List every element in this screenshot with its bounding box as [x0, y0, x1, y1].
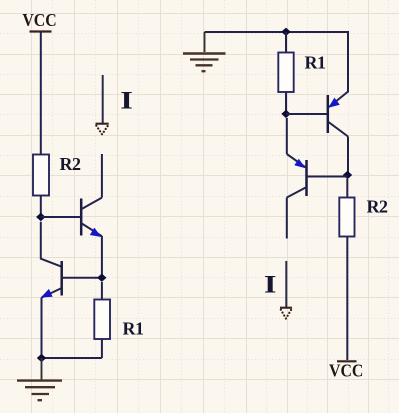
wire Q3 collector to node F	[347, 137, 349, 176]
wire Q2 base to node B	[63, 277, 102, 279]
transistor Q3	[328, 92, 348, 137]
wire Q1 emitter to node B	[101, 236, 103, 278]
resistor R1	[94, 300, 110, 340]
resistor R2 (right)	[339, 198, 354, 237]
node C junction	[37, 354, 46, 362]
current arrow I (left)	[96, 75, 109, 134]
current arrow I (right)	[280, 261, 292, 319]
svg-text:R2: R2	[367, 197, 388, 217]
power VCC (right)	[329, 361, 363, 381]
wire R1 to node E	[285, 92, 287, 114]
svg-text:I: I	[120, 87, 133, 115]
svg-text:VCC: VCC	[329, 361, 363, 381]
wire node F to R2	[346, 179, 348, 198]
svg-text:R1: R1	[305, 53, 326, 73]
transistor Q2	[41, 261, 62, 298]
wire node A to Q1 base	[41, 216, 81, 218]
wire top rail	[205, 32, 349, 93]
node E junction	[281, 110, 290, 118]
power VCC (left)	[22, 10, 56, 31]
wire Q4 collector (current output, open end)	[286, 198, 288, 239]
wire Q2 emitter to node C	[41, 298, 43, 359]
node A junction	[36, 213, 45, 221]
wire R1 to node C	[101, 339, 103, 358]
wire node D to R1	[285, 32, 287, 53]
transistor Q1	[81, 198, 102, 237]
wire node B to R1	[101, 282, 103, 300]
resistor R2	[33, 155, 49, 196]
wire R2 to VCC	[346, 237, 348, 361]
wire node A down to Q2 collector	[41, 222, 62, 267]
svg-text:R2: R2	[60, 154, 81, 174]
ground (right top)	[183, 32, 226, 71]
node D junction	[281, 28, 290, 36]
wire R2 to node A	[40, 196, 42, 218]
wire Q4 base to node F	[307, 176, 347, 178]
svg-text:I: I	[264, 271, 277, 299]
resistor R1 (right)	[278, 53, 293, 93]
svg-text:R1: R1	[123, 319, 144, 339]
wire Q1 collector (current input, open end)	[101, 154, 103, 198]
svg-text:VCC: VCC	[22, 10, 56, 30]
node B junction	[97, 274, 106, 282]
node F junction	[343, 171, 352, 179]
wire node C horizontal	[42, 357, 102, 359]
transistor Q4	[287, 154, 307, 198]
wire node E to Q3 base	[286, 113, 327, 115]
ground (left)	[17, 358, 62, 400]
wire VCC to R2	[40, 33, 42, 155]
wire node E to Q4 emitter	[286, 118, 288, 154]
